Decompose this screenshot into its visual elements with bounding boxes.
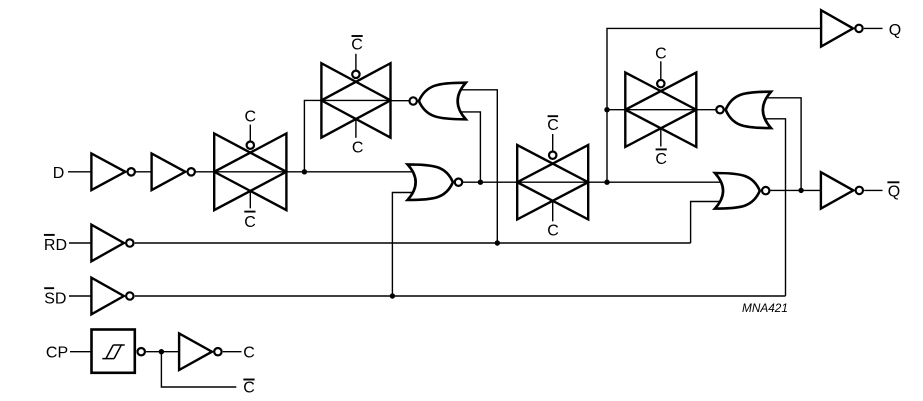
svg-text:C: C <box>245 109 257 126</box>
NOR gate N1 (master, right facing) <box>408 164 463 200</box>
label C below TG3 <box>547 222 559 239</box>
svg-text:RD: RD <box>44 237 67 254</box>
wire N3 output to inverter U6 <box>770 189 821 191</box>
node junction dot TG4 tap <box>604 107 609 112</box>
label C-bar below TG1 <box>244 212 256 231</box>
inverter U3 (RD) <box>91 225 133 262</box>
transmission gate TG2 <box>321 63 390 137</box>
svg-text:SD: SD <box>44 290 66 307</box>
label C above TG1 <box>245 109 257 126</box>
NOR gate N4 (slave feedback, left facing) <box>716 92 771 128</box>
node junction dot slave input node <box>604 180 609 185</box>
svg-text:C: C <box>547 222 559 239</box>
label C below TG2 <box>352 140 364 157</box>
TG3 top control bubble <box>549 152 556 159</box>
wire U8 to C label <box>223 351 242 353</box>
wire inverter U1 to inverter U2 <box>135 171 152 173</box>
wire U7 to inverter U8 <box>146 351 179 353</box>
svg-text:C: C <box>244 214 256 231</box>
transmission gate TG4 <box>625 73 696 147</box>
node junction dot SD to N1 branch <box>390 293 395 298</box>
inverter U2 <box>152 154 195 191</box>
inverter U6 (Q-bar output) <box>821 172 863 208</box>
wire NOR N2 output bubble to TG2 right <box>391 100 410 102</box>
node Q output label <box>889 22 901 39</box>
wire TG2 bottom control <box>355 119 357 138</box>
node junction dot TG2 branch <box>302 169 307 174</box>
node SD input label <box>44 288 66 307</box>
wire C-bar branch <box>161 352 236 387</box>
node CP input label <box>46 345 68 362</box>
label C-bar above TG3 <box>547 116 559 134</box>
wire D lead <box>68 171 91 173</box>
wire TG3 bottom control <box>552 201 554 222</box>
svg-text:D: D <box>53 165 65 182</box>
svg-text:MNA421: MNA421 <box>742 301 788 315</box>
label C-bar above TG2 <box>351 36 363 54</box>
wire TG3 top control <box>552 134 554 151</box>
svg-text:Q: Q <box>888 184 900 201</box>
label MNA421 drawing code <box>742 301 788 315</box>
node RD input label <box>44 235 67 254</box>
NOR gate N2 (master feedback, left facing) <box>410 83 466 120</box>
wire SD row to NOR N4 bottom input riser <box>135 295 786 297</box>
label C above TG4 <box>655 46 667 63</box>
wire RD lead <box>69 242 91 244</box>
node junction dot clock branch <box>159 349 164 354</box>
wire TG2 top control <box>355 54 357 70</box>
node junction dot on RD row <box>495 240 500 245</box>
wire TG4 left tap <box>607 109 625 111</box>
wire inverter U2 to transmission gate TG1 <box>195 171 215 173</box>
wire TG3 output to NOR N3 top input <box>588 181 722 183</box>
transmission gate TG3 <box>517 145 588 219</box>
label C-bar below TG4 <box>655 149 667 168</box>
wire U6 to Q-bar label <box>864 189 882 191</box>
node C clock label <box>243 345 255 362</box>
svg-text:C: C <box>351 37 363 54</box>
wire TG1 output to NOR gate N1 top input <box>286 171 416 173</box>
wire branch up to TG2 left <box>304 100 321 171</box>
svg-text:C: C <box>655 46 667 63</box>
TG2 top control bubble <box>352 71 359 78</box>
wire RD row to NOR N3 bottom input riser <box>135 242 691 244</box>
wire NOR N3 bottom input from RD line <box>691 202 722 244</box>
node D input label <box>53 165 65 182</box>
wire SD lead <box>69 295 91 297</box>
svg-text:C: C <box>243 380 255 397</box>
node Q-bar output label <box>887 182 900 200</box>
wire TG1 top control <box>249 125 251 141</box>
wire NOR N1 bottom input from SD line <box>392 193 416 297</box>
node junction dot on master output node <box>478 180 483 185</box>
svg-text:C: C <box>243 345 255 362</box>
svg-text:C: C <box>547 117 559 134</box>
wire CP lead <box>70 351 92 353</box>
Schmitt trigger U7 box <box>92 330 145 373</box>
svg-text:CP: CP <box>46 345 68 362</box>
wire NOR N2 top input to RD line <box>455 90 497 243</box>
inverter U5 (Q output) <box>821 10 863 46</box>
wire NOR N4 output bubble to TG4 right <box>696 109 716 111</box>
TG4 top control bubble <box>657 80 664 87</box>
NOR gate N3 (slave, right facing) <box>715 173 770 209</box>
wire NOR N4 top input to Q-bar node <box>762 98 801 191</box>
wire slave node vertical riser <box>607 28 821 182</box>
inverter U8 (clock) <box>179 333 221 370</box>
TG1 top control bubble <box>247 142 254 149</box>
wire NOR N4 bottom input to SD line <box>762 119 786 296</box>
svg-text:C: C <box>655 151 667 168</box>
transmission gate TG1 <box>214 134 286 211</box>
wire U5 to Q label <box>864 27 883 29</box>
node C-bar clock label <box>243 380 255 397</box>
wire N1 output to TG3 <box>463 181 517 183</box>
wire TG1 bottom control <box>249 191 251 208</box>
svg-text:Q: Q <box>889 22 901 39</box>
inverter U1 <box>91 154 134 191</box>
svg-text:C: C <box>352 140 364 157</box>
wire TG4 top control <box>660 61 662 79</box>
wire TG4 bottom control <box>660 128 662 146</box>
wire NOR N2 bottom input down to master node <box>455 112 480 182</box>
node junction dot on Q-bar row <box>798 188 803 193</box>
inverter U4 (SD) <box>91 278 133 315</box>
